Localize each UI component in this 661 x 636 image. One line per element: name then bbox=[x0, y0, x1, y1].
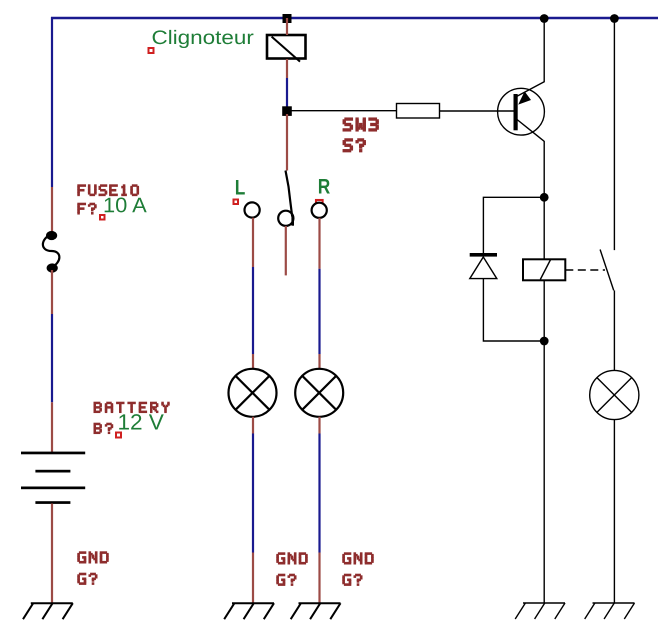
wire fuse bottom pin red bbox=[51, 270, 53, 314]
wire blue segment under flasher bbox=[286, 78, 288, 108]
node junction on rail at transistor column bbox=[540, 14, 549, 23]
ground under lamp L bbox=[224, 603, 274, 619]
wire L blue to ground bbox=[252, 434, 254, 553]
switch SW1 R contact bbox=[312, 203, 327, 218]
relay contact switch lever bbox=[600, 250, 614, 291]
wire R lamp bottom pin red bbox=[318, 417, 320, 434]
wire L blue down bbox=[252, 267, 254, 354]
diode D1 bbox=[470, 253, 497, 279]
wire below relay coil to ground bbox=[543, 280, 545, 603]
wire right lamp to ground bbox=[613, 420, 615, 603]
node junction under flasher bbox=[282, 106, 292, 116]
wire resistor to base bbox=[440, 110, 514, 112]
node junction on rail at right switch column bbox=[610, 14, 619, 23]
wire diode branch bottom bbox=[483, 279, 544, 341]
wire R blue down bbox=[318, 269, 320, 354]
marker red square at L bbox=[234, 200, 239, 205]
label SW3 bbox=[343, 117, 379, 131]
label L bbox=[236, 180, 245, 194]
ground under battery bbox=[23, 603, 73, 619]
marker red square at battery bbox=[116, 433, 121, 438]
wire L ground pin red bbox=[252, 553, 254, 604]
wire red down to switch lever bbox=[286, 114, 288, 171]
label G? lamp R bbox=[342, 574, 362, 586]
node junction on rail above flasher bbox=[283, 14, 292, 23]
wire mid contact stub red bbox=[285, 226, 287, 275]
wire R lamp top pin red bbox=[318, 354, 320, 369]
wire fuse top pin red bbox=[51, 187, 53, 232]
wire emitter up to rail bbox=[543, 18, 545, 82]
wire flasher top pin red bbox=[286, 18, 288, 35]
wire dashed actuator link bbox=[565, 269, 605, 271]
wire junction to resistor bbox=[287, 110, 397, 112]
battery B1 bbox=[21, 452, 85, 504]
wire battery to ground red bbox=[51, 504, 53, 604]
label GND lamp R bbox=[342, 552, 373, 564]
ground under relay column bbox=[515, 603, 565, 619]
lamp R bbox=[295, 369, 343, 417]
fuse F1 bbox=[43, 231, 60, 273]
marker red square at R bbox=[316, 200, 323, 204]
wire top power rail bbox=[51, 17, 658, 20]
label G? lamp L bbox=[276, 574, 296, 586]
transistor Q1 (PNP) bbox=[498, 82, 545, 142]
wire diode branch top bbox=[483, 197, 544, 253]
node junction diode bottom bbox=[540, 337, 549, 346]
lamp L bbox=[229, 369, 277, 417]
wire L lamp top pin red bbox=[252, 354, 254, 369]
wire R ground pin red bbox=[318, 553, 320, 604]
ground under right lamp bbox=[585, 603, 635, 619]
label R bbox=[319, 179, 330, 193]
label F? bbox=[77, 203, 96, 215]
node junction diode top bbox=[540, 193, 549, 202]
wire right switch bottom to lamp bbox=[613, 290, 615, 370]
wire right switch top bbox=[613, 18, 615, 250]
label GND battery bbox=[77, 551, 108, 563]
flasher unit box bbox=[267, 35, 306, 59]
value 12 V bbox=[119, 414, 164, 429]
wire battery top pin red bbox=[51, 402, 53, 452]
label FUSE10 bbox=[77, 184, 139, 196]
lamp right bbox=[590, 370, 639, 419]
value 10 A bbox=[105, 198, 147, 213]
label BATTERY bbox=[94, 402, 170, 413]
label S? bbox=[343, 138, 366, 152]
wire collector down main bbox=[543, 141, 545, 260]
wire R contact pin red bbox=[318, 218, 320, 269]
wire L lamp bottom pin red bbox=[252, 417, 254, 434]
label GND lamp L bbox=[276, 552, 307, 564]
switch SW1 lever tick bbox=[291, 217, 294, 226]
switch SW1 mid contact bbox=[278, 211, 293, 226]
switch SW1 lever bbox=[286, 171, 293, 217]
resistor R1 bbox=[397, 104, 440, 119]
wire R blue to ground bbox=[318, 434, 320, 553]
marker red square at Clignoteur bbox=[149, 48, 154, 53]
ground under lamp R bbox=[291, 603, 341, 619]
wire blue fuse to battery bbox=[51, 314, 53, 402]
label Clignoteur bbox=[153, 30, 254, 48]
label B? bbox=[94, 423, 114, 434]
marker red square at fuse bbox=[100, 215, 105, 220]
wire flasher bottom pin red bbox=[286, 59, 288, 78]
wire left vertical blue bbox=[51, 17, 53, 187]
label G? battery bbox=[77, 573, 97, 585]
wire L contact pin red bbox=[252, 218, 254, 267]
switch SW1 L contact bbox=[245, 202, 260, 217]
relay coil K1 bbox=[523, 259, 565, 280]
